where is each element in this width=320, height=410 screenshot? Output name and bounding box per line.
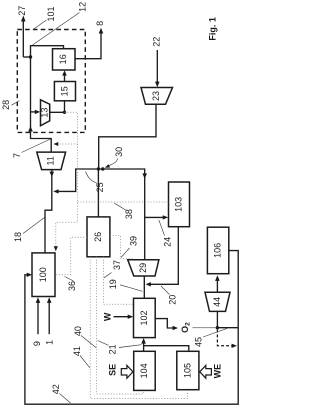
leader 38 xyxy=(115,203,127,210)
hollow arrow SE into 104 xyxy=(121,365,133,378)
svg-text:SE: SE xyxy=(107,364,117,376)
wire 11 outlet down to box 100 xyxy=(45,170,52,253)
wire O2 outlet from 102 xyxy=(155,319,175,328)
wire recycle 42: 106 right, down, along bottom, up into 100 xyxy=(25,251,238,405)
wire W arrow into 102 xyxy=(114,316,131,318)
wire node D to recycle line xyxy=(217,327,238,329)
svg-text:9: 9 xyxy=(32,341,42,346)
leader 20 xyxy=(161,286,170,295)
leader 37 xyxy=(104,273,112,278)
svg-text:19: 19 xyxy=(108,279,118,289)
svg-text:18: 18 xyxy=(13,232,23,242)
box 102 xyxy=(134,298,156,337)
dotted line 36: box 26 to box 100 xyxy=(55,237,87,275)
wire node D up through 44 into 106 xyxy=(216,311,218,327)
svg-text:20: 20 xyxy=(167,295,177,305)
dotted sense line from node B down with branches xyxy=(56,112,78,248)
leader 45 xyxy=(203,328,227,337)
svg-text:25: 25 xyxy=(95,182,105,192)
leader 41 xyxy=(80,356,90,368)
leader 42 xyxy=(60,394,71,404)
dashed enclosure 101 xyxy=(17,30,85,133)
leader 101 xyxy=(33,20,47,30)
leader 25 curly xyxy=(86,172,97,184)
svg-text:23: 23 xyxy=(151,91,161,101)
svg-text:22: 22 xyxy=(152,37,162,47)
svg-text:8: 8 xyxy=(95,21,105,26)
wire 15 to 16 arrow xyxy=(64,73,66,82)
leader 18 xyxy=(23,218,45,234)
svg-text:102: 102 xyxy=(139,310,149,325)
svg-text:28: 28 xyxy=(1,100,11,110)
wire 29 outlet into box 102 xyxy=(143,276,145,298)
leader 28 xyxy=(12,101,20,106)
leader 24 xyxy=(159,220,165,236)
svg-text:39: 39 xyxy=(128,236,138,246)
wire 103 bottom to main line (20) xyxy=(149,227,179,285)
svg-text:44: 44 xyxy=(212,297,222,307)
svg-text:7: 7 xyxy=(12,153,22,158)
node A junction dot xyxy=(29,55,32,58)
leader 12 xyxy=(33,13,80,46)
wire node to 27 line xyxy=(23,56,30,58)
wire inputs 9 and 1 into box 100 xyxy=(37,301,39,335)
box 105 xyxy=(177,351,199,389)
svg-text:WE: WE xyxy=(212,364,222,379)
node D junction dot xyxy=(216,326,219,329)
leader 19 xyxy=(120,285,143,292)
node B junction dot xyxy=(63,111,66,114)
svg-text:36: 36 xyxy=(67,281,77,291)
svg-text:1: 1 xyxy=(44,340,54,345)
leader 39 xyxy=(121,248,130,258)
svg-text:21: 21 xyxy=(107,344,117,354)
svg-text:12: 12 xyxy=(77,2,87,12)
hollow arrow WE into 105 xyxy=(200,365,212,378)
box 103 xyxy=(169,182,190,227)
svg-text:W: W xyxy=(102,312,112,321)
leader 30 curly with arrow xyxy=(108,159,118,167)
dotted line 37: box 26 to box 102 xyxy=(104,257,134,305)
trapezoid 29 xyxy=(128,260,159,276)
svg-text:103: 103 xyxy=(173,197,183,212)
svg-text:27: 27 xyxy=(17,6,27,16)
wire 22 inlet arrow into 23 xyxy=(156,50,158,84)
trapezoid 44 xyxy=(205,292,230,311)
svg-text:24: 24 xyxy=(162,237,172,247)
leader 40 xyxy=(81,336,96,348)
wire node C to 29/103 main line xyxy=(98,169,144,260)
svg-text:38: 38 xyxy=(124,209,134,219)
wire node C down to box 26 xyxy=(97,169,99,217)
svg-text:100: 100 xyxy=(38,267,48,282)
wire O2 thin link to node D xyxy=(193,327,218,329)
svg-text:106: 106 xyxy=(212,243,222,258)
wire turbine exhaust riser xyxy=(31,57,52,152)
svg-text:26: 26 xyxy=(93,232,103,242)
svg-text:104: 104 xyxy=(139,363,149,378)
svg-text:101: 101 xyxy=(46,6,56,21)
box 100 xyxy=(32,253,55,297)
trapezoid 23 xyxy=(141,88,173,105)
dotted line 40: box 26 to box 104 xyxy=(97,257,144,394)
svg-text:29: 29 xyxy=(138,263,148,273)
wire 24 branch arrow into 103 xyxy=(145,216,165,218)
wire branch arrow into 13 xyxy=(31,111,38,113)
box 15 xyxy=(54,82,75,101)
wire 23 outlet to node C xyxy=(99,104,156,169)
dotted branch 38 to box 103 xyxy=(78,201,169,203)
wire 16 to outlet 8 xyxy=(75,32,101,59)
box 26 xyxy=(87,217,110,257)
box 106 xyxy=(207,227,228,274)
leader 36 xyxy=(65,277,74,282)
svg-text:11: 11 xyxy=(46,156,56,165)
svg-text:105: 105 xyxy=(182,363,192,378)
leader 7 xyxy=(22,139,51,153)
trapezoid 13 xyxy=(41,100,50,126)
wire node to box16 top xyxy=(31,46,64,57)
leaders 21 xyxy=(98,341,109,346)
dotted line 41: box 26 to box 105 xyxy=(90,257,187,399)
svg-text:40: 40 xyxy=(73,326,83,336)
box 16 xyxy=(53,49,76,70)
trapezoid 11 xyxy=(37,152,66,170)
node C junction dots xyxy=(97,167,100,170)
wire 102-104 link with arrow and branch to 105 xyxy=(143,341,145,351)
wire 13 to node B xyxy=(50,101,65,113)
dashed bypass 45 xyxy=(217,330,233,346)
box 104 xyxy=(134,351,156,390)
wire 27 outlet with arrow xyxy=(22,20,24,57)
svg-text:15: 15 xyxy=(59,86,69,96)
svg-text:37: 37 xyxy=(112,260,122,270)
svg-text:41: 41 xyxy=(72,346,82,356)
svg-text:Fig. 1: Fig. 1 xyxy=(207,17,217,41)
wire node C to 11 inlet join xyxy=(56,169,98,191)
svg-text:42: 42 xyxy=(51,384,61,394)
flow arrow up xyxy=(28,126,33,131)
dotted branch arrow into 11 feed xyxy=(57,143,78,145)
svg-text:30: 30 xyxy=(114,147,124,157)
svg-text:13: 13 xyxy=(40,108,50,118)
dotted line 39: box 26 to 29 xyxy=(110,236,133,259)
svg-text:45: 45 xyxy=(194,337,204,347)
svg-text:16: 16 xyxy=(58,54,68,64)
